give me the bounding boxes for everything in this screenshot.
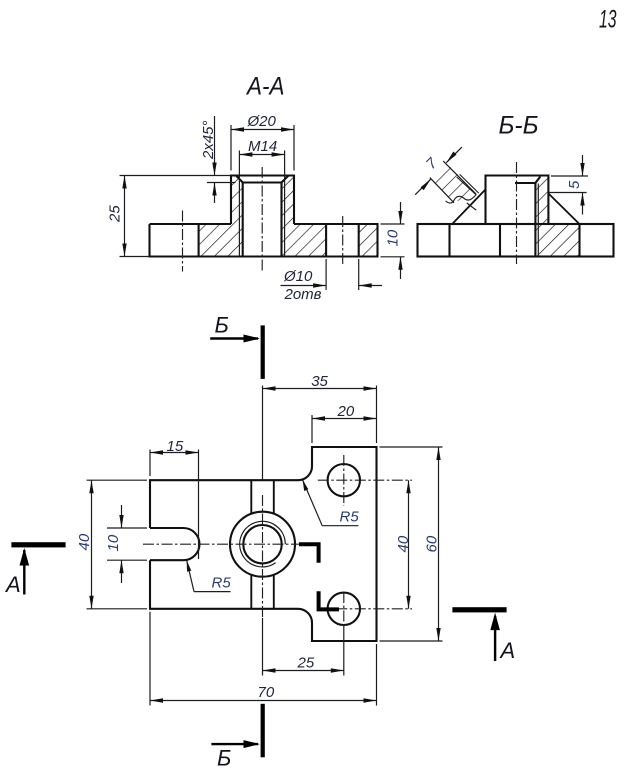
B-B base division left (tab edge)	[448, 224, 450, 257]
svg-text:10: 10	[385, 229, 402, 246]
dimension 7 (B-B rib)	[415, 147, 476, 210]
B-B base top edge broken at hole	[418, 223, 614, 225]
section plane step mark lower	[319, 591, 339, 609]
A-A hole chamfer left	[236, 176, 243, 183]
dimension 35 (plan top)	[263, 373, 377, 480]
A-A base outline	[150, 224, 378, 257]
B-B base division right (tab edge)	[578, 224, 580, 257]
A-A slot end centerline	[182, 211, 184, 272]
dimension 40 (plan right inner)	[395, 480, 412, 609]
dimension D20 (A-A)	[231, 113, 294, 171]
B-B south rib slope	[549, 194, 580, 225]
hatch rib broken-out piece (B-B)	[432, 161, 477, 202]
A-A boss axis centerline	[261, 167, 263, 271]
A-A boss outline	[231, 176, 294, 225]
svg-text:35: 35	[311, 373, 328, 390]
svg-text:А: А	[499, 638, 516, 663]
dimension 2x45deg (A-A)	[120, 116, 236, 203]
hatch boss left column (A-A)	[231, 176, 243, 257]
svg-text:А-А: А-А	[245, 73, 284, 101]
svg-text:15: 15	[167, 438, 184, 455]
plan upper hole	[328, 464, 360, 496]
A-A bore line left	[242, 183, 244, 257]
svg-text:2отв: 2отв	[284, 286, 322, 303]
svg-text:А: А	[4, 572, 21, 597]
B-B rib broken-out boundary wavy line	[446, 194, 477, 203]
svg-text:60: 60	[424, 535, 441, 552]
hatch base right sliver (A-A)	[359, 224, 378, 257]
B-B chamfer slope	[535, 177, 540, 184]
dimension D10 2otv (A-A)	[281, 259, 383, 303]
plan lower hole horizontal centerline	[318, 608, 412, 610]
B-B base outline	[418, 224, 614, 257]
plan boss horizontal centerline	[143, 543, 299, 545]
plan boss circle	[230, 512, 295, 577]
A-A thread thin line right	[284, 151, 286, 257]
svg-text:10: 10	[105, 534, 122, 551]
hatch base right of boss (A-A)	[294, 224, 326, 257]
dimension 20 (plan top)	[312, 403, 377, 443]
leader R5 (plan tab fillet)	[303, 480, 360, 526]
plan rib edge left	[250, 480, 252, 609]
svg-text:R5: R5	[340, 509, 360, 526]
svg-text:2x45°: 2x45°	[200, 120, 217, 160]
svg-text:M14: M14	[248, 138, 277, 155]
svg-text:Б: Б	[217, 746, 231, 771]
leader R5 (plan slot)	[187, 561, 232, 592]
hatch base left of boss (A-A)	[199, 224, 231, 257]
dimension 10 (A-A right)	[381, 202, 405, 279]
plan boss vertical centerline	[262, 495, 264, 618]
A-A flange hole left edge	[325, 224, 327, 257]
plan upper hole horizontal centerline	[318, 479, 412, 481]
A-A chamfer bottom edge	[243, 181, 282, 183]
dimension 60 (plan right outer)	[380, 447, 443, 641]
section mark A left	[4, 542, 66, 597]
svg-text:13: 13	[599, 6, 617, 34]
A-A thread thin line left	[238, 151, 240, 257]
A-A slot back-wall division	[198, 224, 200, 257]
B-B north rib slope	[452, 190, 485, 224]
dimension 40 (plan left)	[76, 480, 147, 609]
plan slot outline	[150, 528, 200, 560]
dimension 10 (plan slot width)	[105, 505, 147, 583]
section plane step mark upper	[299, 544, 319, 562]
B-B boss outline	[486, 176, 549, 225]
svg-text:R5: R5	[212, 575, 232, 592]
svg-text:Ø20: Ø20	[247, 113, 277, 130]
hatch boss right column (A-A)	[282, 176, 295, 257]
section mark A right	[452, 607, 515, 663]
B-B bore line	[534, 183, 536, 257]
plan bore circle	[243, 525, 281, 563]
section mark B top	[210, 313, 265, 379]
svg-text:5: 5	[566, 180, 583, 189]
section mark B bottom	[211, 704, 264, 771]
svg-text:40: 40	[395, 535, 412, 552]
dimension 5 (B-B right)	[549, 155, 589, 215]
dimension 70 (plan bottom)	[150, 612, 377, 706]
svg-text:Б-Б: Б-Б	[499, 112, 539, 140]
dimension M14 (A-A)	[239, 138, 284, 157]
plan thread circle 3/4 arc	[240, 521, 286, 567]
A-A hole chamfer right	[282, 176, 289, 183]
svg-text:40: 40	[76, 533, 93, 550]
dimension 25 (plan bottom)	[263, 618, 344, 676]
svg-text:Ø10: Ø10	[283, 268, 313, 285]
svg-text:Б: Б	[215, 313, 229, 338]
A-A flange hole right edge	[358, 224, 360, 257]
svg-text:25: 25	[107, 205, 124, 223]
B-B rib mid edge lines	[457, 174, 479, 195]
svg-text:70: 70	[258, 684, 275, 701]
B-B slot edge	[499, 224, 501, 257]
plan lower hole	[328, 593, 360, 625]
B-B axis centerline	[516, 162, 518, 264]
plan rib edge right	[273, 480, 275, 609]
svg-text:25: 25	[297, 655, 315, 672]
A-A bore line right	[280, 183, 282, 257]
dimension 15 (plan slot)	[150, 438, 199, 559]
dimension 25 (A-A left)	[107, 176, 150, 257]
hatch boss column and base right (B-B)	[535, 176, 579, 256]
plan upper hole vertical centerline	[343, 455, 345, 506]
B-B chamfer back edge	[515, 182, 535, 184]
plan outline main plate and tab	[150, 447, 377, 641]
B-B thread thin line	[537, 184, 539, 257]
A-A flange hole centerline	[342, 216, 344, 267]
svg-text:20: 20	[337, 403, 355, 420]
plan lower hole vertical centerline	[343, 592, 345, 626]
